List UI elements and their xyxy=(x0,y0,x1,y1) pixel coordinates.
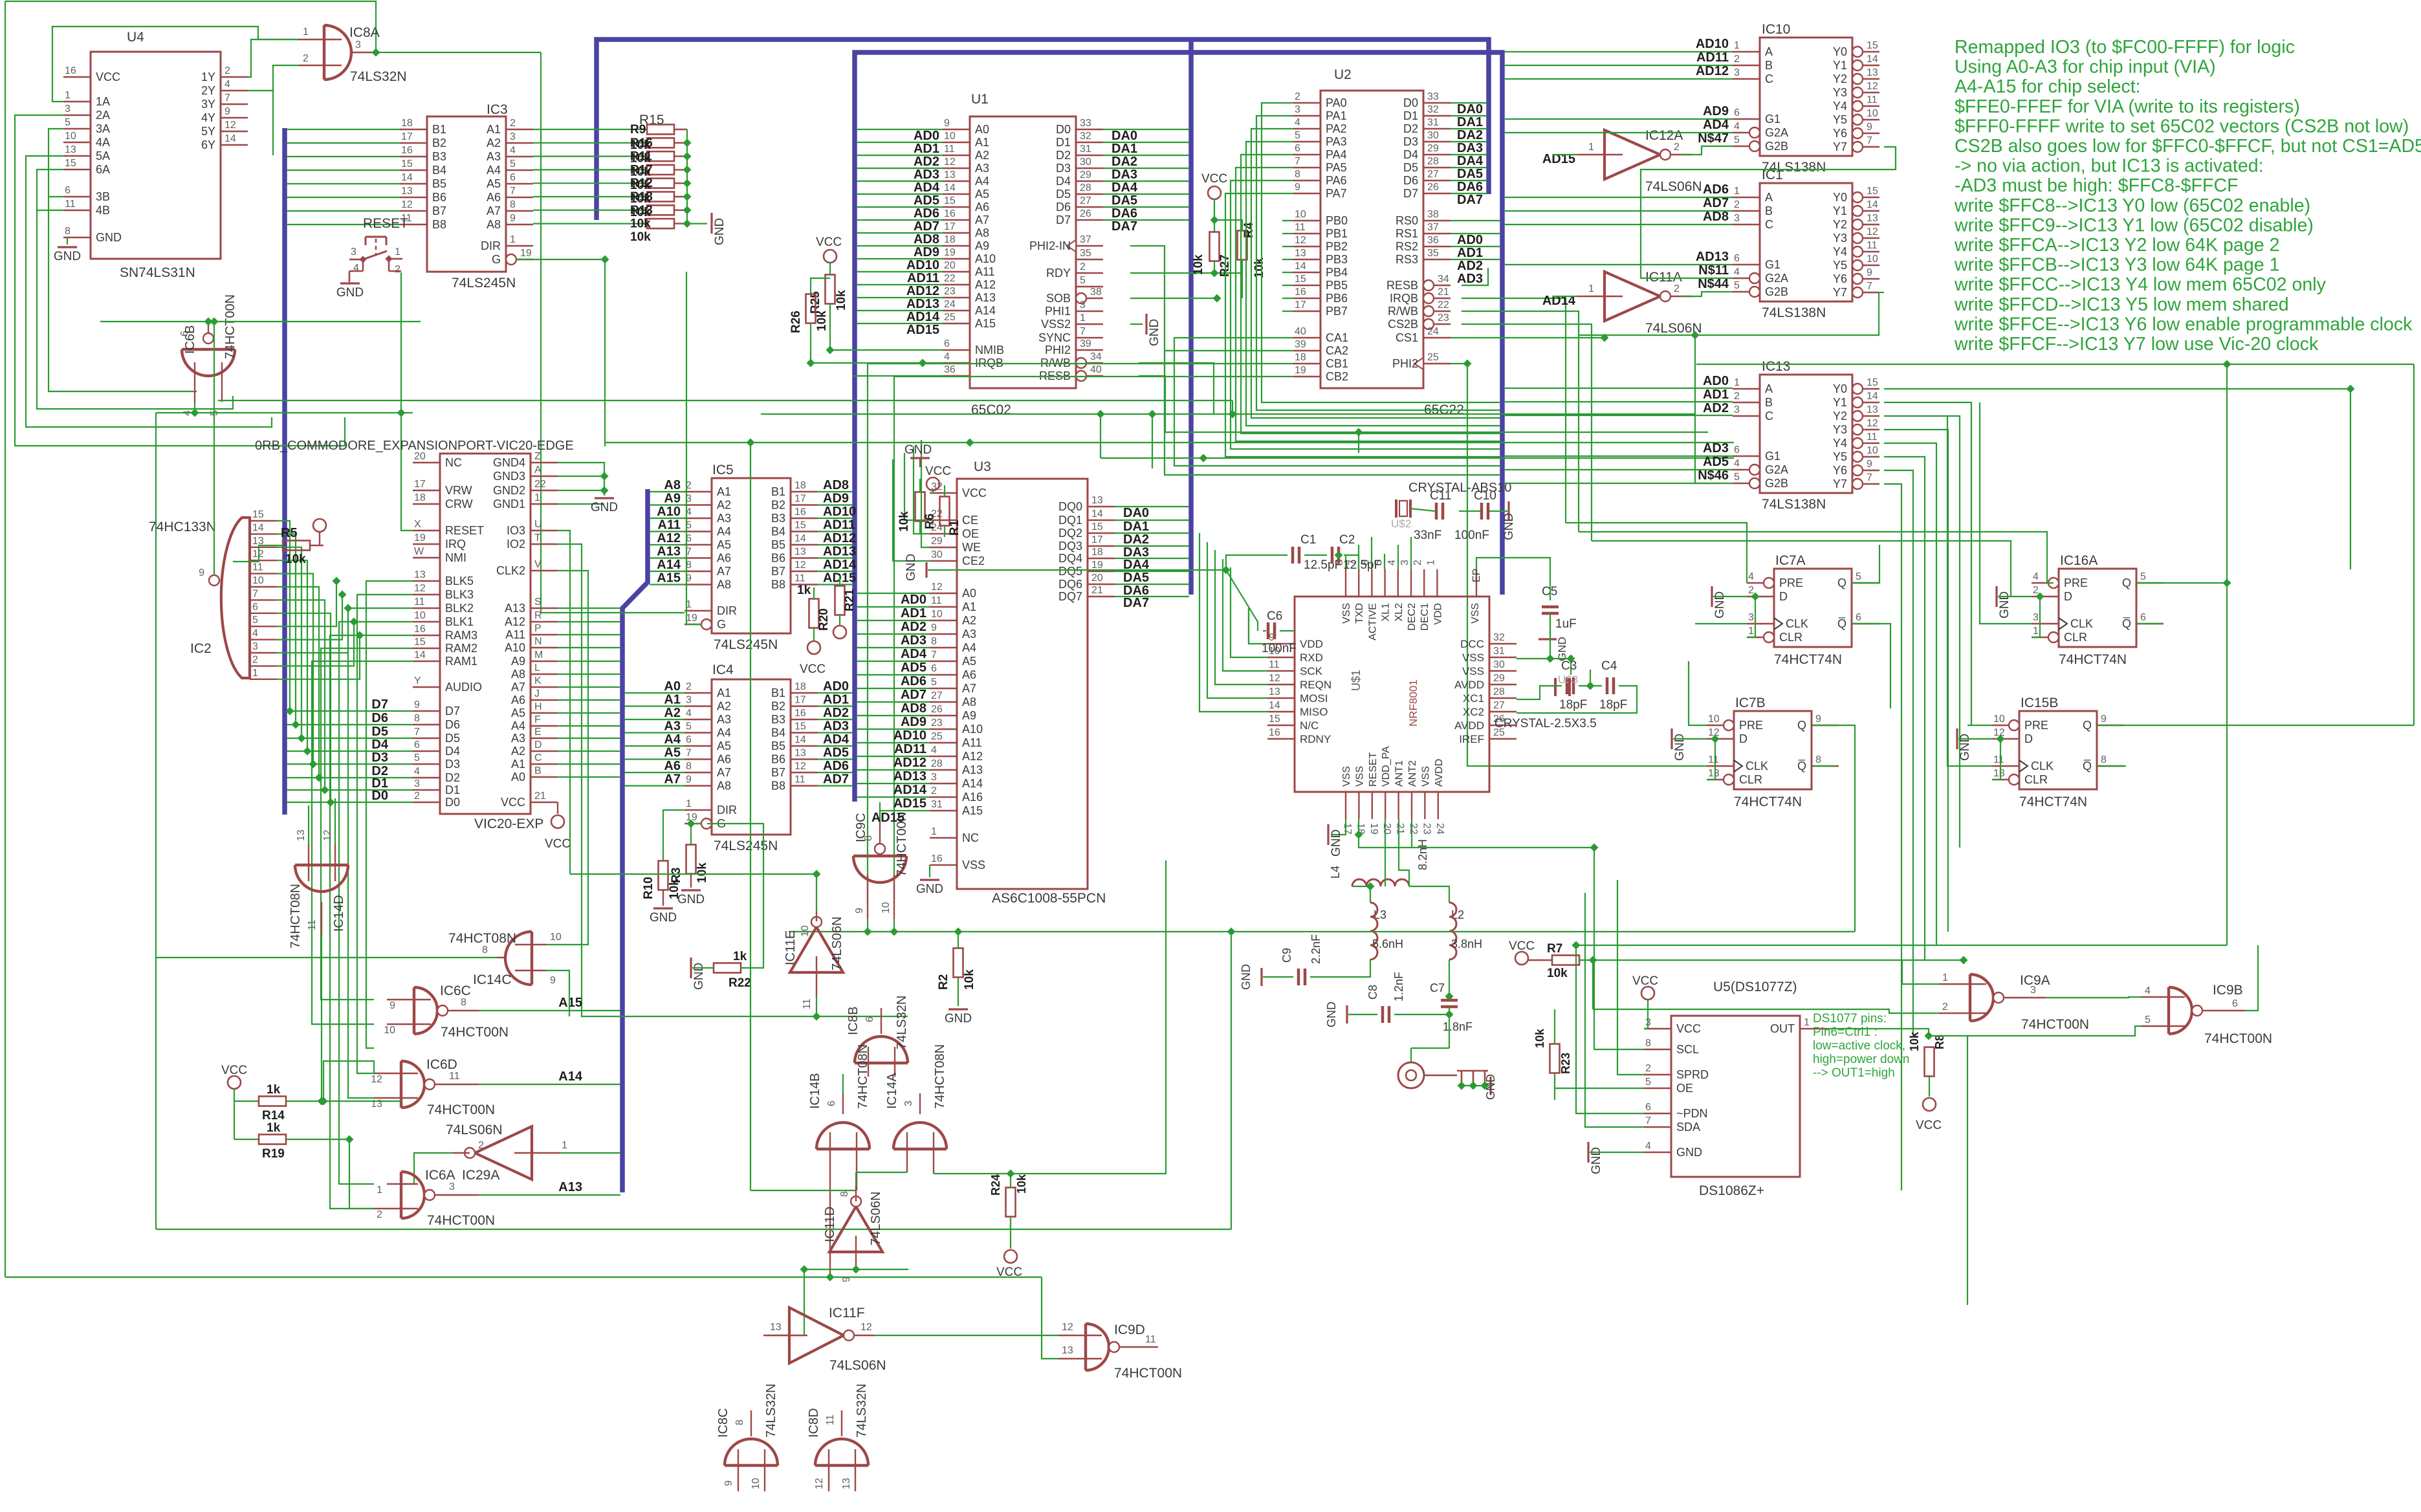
svg-text:A8: A8 xyxy=(717,578,731,591)
svg-text:A: A xyxy=(1765,45,1773,58)
svg-text:B3: B3 xyxy=(432,150,446,163)
svg-text:18: 18 xyxy=(944,234,956,245)
svg-text:-AD3 must be high: $FFC8-$FFCF: -AD3 must be high: $FFC8-$FFCF xyxy=(1955,175,2239,196)
inductor L2 3.8nH xyxy=(1449,903,1482,959)
svg-text:6: 6 xyxy=(1856,612,1861,623)
svg-text:15: 15 xyxy=(1867,186,1878,197)
wire verticals into U3 zone xyxy=(1232,400,1233,414)
svg-text:40: 40 xyxy=(1090,364,1102,375)
svg-text:VCC: VCC xyxy=(1632,974,1658,988)
svg-text:CLR: CLR xyxy=(1739,773,1762,786)
svg-text:AD5: AD5 xyxy=(901,661,926,675)
nand-gate IC9B 74HCT00N xyxy=(2142,983,2272,1046)
svg-text:13: 13 xyxy=(414,569,426,580)
svg-text:11: 11 xyxy=(1295,222,1306,233)
svg-text:VSS: VSS xyxy=(1462,652,1484,664)
svg-text:A2: A2 xyxy=(487,137,501,149)
svg-text:$FFE0-FFEF for VIA (write to i: $FFE0-FFEF for VIA (write to its registe… xyxy=(1955,96,2300,117)
wire IC5 G net xyxy=(686,272,687,624)
svg-text:Y2: Y2 xyxy=(1833,410,1847,422)
svg-text:XC1: XC1 xyxy=(1463,692,1484,705)
svg-text:PHI1: PHI1 xyxy=(1045,305,1071,318)
wire R14 R19 outputs xyxy=(286,1101,401,1102)
svg-text:6: 6 xyxy=(2232,998,2238,1009)
svg-text:A10: A10 xyxy=(975,252,996,265)
wire into IC9A pin1 pin2 xyxy=(1902,960,1939,984)
svg-text:30: 30 xyxy=(1493,659,1505,670)
wire U2 RESB IRQB nets xyxy=(1462,268,1488,285)
svg-text:AD1: AD1 xyxy=(1703,388,1729,402)
svg-text:RAM1: RAM1 xyxy=(445,655,477,668)
svg-text:GND: GND xyxy=(692,963,706,990)
svg-text:D4: D4 xyxy=(371,738,388,752)
svg-text:A0: A0 xyxy=(511,771,525,783)
svg-text:G: G xyxy=(492,253,501,266)
svg-text:GND: GND xyxy=(713,218,727,245)
resistor R14 1k xyxy=(259,1097,286,1106)
svg-text:A2: A2 xyxy=(511,745,525,758)
svg-text:NC: NC xyxy=(962,831,979,844)
svg-text:A14: A14 xyxy=(975,304,996,317)
wire C6 xyxy=(1263,630,1266,631)
svg-text:18: 18 xyxy=(1295,352,1306,363)
svg-text:A3: A3 xyxy=(962,628,976,641)
svg-text:D: D xyxy=(534,740,542,751)
svg-text:B7: B7 xyxy=(432,204,446,217)
svg-text:14: 14 xyxy=(794,533,806,544)
svg-text:74LS245N: 74LS245N xyxy=(714,637,778,652)
wire IC6B output net xyxy=(100,321,421,322)
svg-text:9: 9 xyxy=(414,699,420,710)
svg-text:PA1: PA1 xyxy=(1326,109,1347,122)
wire NRF8001 top pins up xyxy=(1345,555,1346,569)
svg-text:9: 9 xyxy=(686,774,692,785)
svg-text:74HCT08N: 74HCT08N xyxy=(289,884,303,948)
svg-text:11: 11 xyxy=(802,998,813,1009)
svg-text:AD12: AD12 xyxy=(906,284,939,298)
capacitor C8 1.2nF xyxy=(1366,972,1405,1023)
svg-text:R4: R4 xyxy=(1242,222,1256,238)
svg-text:DA5: DA5 xyxy=(1112,193,1137,208)
svg-text:G2B: G2B xyxy=(1765,140,1788,153)
svg-text:12: 12 xyxy=(1295,235,1306,246)
svg-text:9: 9 xyxy=(854,908,865,914)
wire vertical x1160 long xyxy=(750,443,751,1190)
svg-text:GND4: GND4 xyxy=(493,456,525,469)
svg-text:10: 10 xyxy=(750,1478,761,1489)
svg-text:B4: B4 xyxy=(432,164,446,177)
ground GND right of R15 xyxy=(710,213,712,234)
IC IC1 74LS138N xyxy=(1733,168,1879,320)
svg-text:3: 3 xyxy=(1399,560,1410,565)
svg-text:write $FFCD-->IC13 Y5 low mem: write $FFCD-->IC13 Y5 low mem shared xyxy=(1954,294,2289,315)
svg-text:24: 24 xyxy=(1427,326,1439,337)
svg-text:U$3: U$3 xyxy=(1558,674,1578,686)
svg-text:DEC2: DEC2 xyxy=(1407,603,1418,631)
svg-text:G1: G1 xyxy=(1765,258,1780,271)
svg-text:DA7: DA7 xyxy=(1123,596,1149,610)
svg-text:SYNC: SYNC xyxy=(1038,331,1071,344)
svg-text:OUT: OUT xyxy=(1770,1022,1795,1035)
svg-text:AD0: AD0 xyxy=(1457,233,1483,247)
svg-text:N$44: N$44 xyxy=(1698,277,1729,291)
ground GND of U4 xyxy=(67,237,68,245)
svg-text:12: 12 xyxy=(931,582,943,593)
svg-text:AD8: AD8 xyxy=(914,232,939,247)
svg-text:R24: R24 xyxy=(989,1174,1002,1196)
svg-text:CE2: CE2 xyxy=(962,554,985,567)
svg-text:B4: B4 xyxy=(771,525,785,538)
svg-text:Y7: Y7 xyxy=(1833,286,1847,299)
svg-text:4: 4 xyxy=(510,145,516,156)
svg-text:14: 14 xyxy=(401,172,413,183)
svg-text:A15: A15 xyxy=(558,996,582,1010)
svg-text:A1: A1 xyxy=(717,485,731,498)
wire A15 net xyxy=(479,1010,620,1011)
svg-text:28: 28 xyxy=(931,758,943,769)
svg-text:A1: A1 xyxy=(664,693,681,707)
svg-text:A12: A12 xyxy=(505,615,525,628)
svg-text:GND: GND xyxy=(945,1012,972,1025)
svg-text:17: 17 xyxy=(794,695,806,706)
svg-text:B: B xyxy=(1765,59,1773,72)
svg-text:5: 5 xyxy=(65,117,71,128)
svg-text:D7: D7 xyxy=(1056,214,1071,226)
svg-text:3: 3 xyxy=(903,1101,914,1106)
svg-text:12: 12 xyxy=(401,199,413,210)
wire IC8A output xyxy=(374,52,541,53)
svg-text:19: 19 xyxy=(1368,823,1379,835)
svg-text:39: 39 xyxy=(1295,339,1306,350)
svg-text:GND: GND xyxy=(916,882,943,896)
svg-text:10k: 10k xyxy=(1192,254,1205,275)
svg-text:U4: U4 xyxy=(127,30,144,45)
svg-text:29: 29 xyxy=(931,536,943,547)
svg-text:SCK: SCK xyxy=(1300,665,1323,677)
svg-text:BLK1: BLK1 xyxy=(445,615,474,628)
svg-text:AD12: AD12 xyxy=(893,756,926,770)
svg-text:A3: A3 xyxy=(717,512,731,525)
svg-text:AVDD: AVDD xyxy=(1454,719,1484,732)
svg-text:39: 39 xyxy=(1080,338,1091,349)
svg-text:PRE: PRE xyxy=(1739,719,1763,732)
svg-text:2: 2 xyxy=(1645,1063,1651,1074)
svg-text:74LS06N: 74LS06N xyxy=(446,1123,503,1137)
svg-text:7: 7 xyxy=(1867,281,1872,292)
wire GND to C1 C2 xyxy=(928,569,1226,571)
svg-text:A11: A11 xyxy=(657,518,681,532)
svg-text:A6: A6 xyxy=(487,191,501,204)
svg-text:GND: GND xyxy=(1502,513,1516,540)
svg-text:C7: C7 xyxy=(1430,981,1445,994)
svg-text:74HCT74N: 74HCT74N xyxy=(1734,794,1802,809)
svg-text:13: 13 xyxy=(1062,1345,1073,1356)
svg-text:D5: D5 xyxy=(445,732,460,745)
svg-text:AD8: AD8 xyxy=(1703,210,1729,224)
svg-text:A10: A10 xyxy=(657,505,681,519)
svg-text:5: 5 xyxy=(2145,1014,2151,1025)
svg-text:GND: GND xyxy=(1713,591,1727,619)
svg-text:VSS: VSS xyxy=(1420,766,1431,787)
wire bottom horizontal y1900 xyxy=(156,1229,1231,1230)
ground GND below R2 xyxy=(948,1008,968,1010)
bus ADDR busA top xyxy=(597,39,1489,220)
svg-text:DQ3: DQ3 xyxy=(1058,540,1082,553)
svg-text:1: 1 xyxy=(1734,186,1740,197)
svg-text:74LS138N: 74LS138N xyxy=(1762,305,1826,320)
wire IC14D inputs up xyxy=(308,805,309,844)
svg-text:6: 6 xyxy=(1734,107,1740,118)
svg-text:DA1: DA1 xyxy=(1112,142,1137,156)
wire NRF EP to C5 xyxy=(1476,558,1550,600)
svg-text:Y6: Y6 xyxy=(1833,272,1847,285)
svg-text:AD14: AD14 xyxy=(893,783,927,797)
svg-text:BLK2: BLK2 xyxy=(445,602,474,615)
note DS1077 pins annotation xyxy=(1813,1012,1909,1080)
svg-text:A1: A1 xyxy=(511,758,525,771)
ground GND at IC7B D xyxy=(1671,729,1672,749)
svg-text:AD10: AD10 xyxy=(823,505,856,519)
svg-text:2: 2 xyxy=(510,118,516,129)
power VCC above R25 xyxy=(824,250,837,263)
svg-text:A8: A8 xyxy=(975,226,989,239)
svg-text:AD7: AD7 xyxy=(823,772,849,787)
wire U4 1Y to IC8A pin1 xyxy=(246,39,298,77)
ground GND at U1 VSS2 xyxy=(1130,323,1143,325)
wire top-left outer loop xyxy=(5,1,376,52)
svg-text:Y1: Y1 xyxy=(1833,204,1847,217)
svg-text:12: 12 xyxy=(1269,673,1280,684)
svg-text:DIR: DIR xyxy=(481,239,501,252)
inverter IC12A 74LS06N xyxy=(1577,128,1702,194)
svg-text:13: 13 xyxy=(371,1099,382,1110)
svg-text:PHI2: PHI2 xyxy=(1392,357,1418,370)
svg-text:A12: A12 xyxy=(657,531,681,545)
svg-text:8: 8 xyxy=(1295,169,1300,180)
svg-text:Q̅: Q̅ xyxy=(1797,760,1806,772)
svg-text:Y5: Y5 xyxy=(1833,113,1847,126)
svg-text:31: 31 xyxy=(931,799,943,810)
svg-text:R14: R14 xyxy=(262,1109,285,1123)
svg-text:A9: A9 xyxy=(962,709,976,722)
svg-text:RESB: RESB xyxy=(1386,279,1418,292)
wire IC9A out to IC9B xyxy=(2046,997,2142,998)
svg-text:DCC: DCC xyxy=(1460,638,1484,650)
svg-text:GND: GND xyxy=(1484,1074,1497,1100)
svg-text:8: 8 xyxy=(1645,1038,1651,1049)
svg-text:DQ1: DQ1 xyxy=(1058,514,1082,527)
power VCC above R27 R4 xyxy=(1208,186,1221,199)
svg-text:1: 1 xyxy=(534,492,540,503)
svg-text:DA4: DA4 xyxy=(1457,154,1484,168)
svg-text:65C02: 65C02 xyxy=(971,402,1011,417)
svg-text:VCC: VCC xyxy=(816,236,842,249)
svg-text:GND: GND xyxy=(1240,964,1253,990)
note remapped IO3 annotation xyxy=(1954,37,2421,355)
svg-text:Using A0-A3 for chip input (VI: Using A0-A3 for chip input (VIA) xyxy=(1955,57,2216,78)
svg-text:A5: A5 xyxy=(511,707,525,719)
svg-text:Y4: Y4 xyxy=(1833,245,1847,258)
ground GND under R3 xyxy=(690,874,692,888)
svg-text:CLK: CLK xyxy=(1746,760,1768,772)
svg-text:G: G xyxy=(717,618,726,631)
wire VIC20 address letters to busD xyxy=(558,608,620,609)
svg-text:VSS: VSS xyxy=(962,859,985,871)
svg-text:VIC20-EXP: VIC20-EXP xyxy=(474,816,543,831)
svg-text:B1: B1 xyxy=(771,485,785,498)
resistor R4 10k xyxy=(1238,231,1247,260)
svg-text:1: 1 xyxy=(252,668,258,679)
svg-text:20: 20 xyxy=(1091,573,1103,584)
svg-text:A1: A1 xyxy=(717,686,731,699)
svg-text:6: 6 xyxy=(1734,253,1740,264)
svg-text:GND: GND xyxy=(1325,1002,1338,1027)
svg-text:1k: 1k xyxy=(797,584,811,597)
svg-text:74HC133N: 74HC133N xyxy=(149,520,216,534)
svg-text:C: C xyxy=(534,752,542,763)
svg-text:G1: G1 xyxy=(1765,450,1780,463)
svg-text:19: 19 xyxy=(1295,365,1306,376)
svg-text:3: 3 xyxy=(351,247,356,257)
svg-text:DQ0: DQ0 xyxy=(1058,500,1082,513)
svg-text:Y7: Y7 xyxy=(1833,140,1847,153)
or-gate IC8A 74LS32N xyxy=(298,25,407,84)
resistor R24 10k xyxy=(1006,1188,1016,1217)
wire IC13 Y0 long net xyxy=(1884,388,2350,389)
wire NRF bottom pins to filter xyxy=(1385,819,1386,860)
svg-text:L: L xyxy=(534,663,540,674)
svg-text:19: 19 xyxy=(686,613,697,624)
svg-text:AD3: AD3 xyxy=(823,719,849,734)
svg-text:PB4: PB4 xyxy=(1326,266,1348,279)
nand-gate IC2 74HC133N 13-input xyxy=(149,509,277,679)
IC U5(DS1077Z) DS1086Z+ xyxy=(1644,980,1827,1198)
svg-text:D1: D1 xyxy=(1403,109,1418,122)
svg-text:A15: A15 xyxy=(657,571,681,586)
svg-text:13: 13 xyxy=(65,144,76,155)
svg-text:IC6D: IC6D xyxy=(426,1057,457,1072)
svg-text:7: 7 xyxy=(686,748,692,759)
svg-text:13: 13 xyxy=(1993,768,2005,779)
svg-text:12: 12 xyxy=(794,761,806,772)
nand-gate IC6B 74HCT00N xyxy=(179,294,237,416)
svg-text:IC9A: IC9A xyxy=(2020,973,2050,988)
svg-text:2: 2 xyxy=(1412,560,1423,565)
svg-text:10: 10 xyxy=(414,610,426,621)
wire U2 PA nets xyxy=(1262,103,1500,402)
wire left edge vertical xyxy=(5,1,6,1277)
svg-text:5: 5 xyxy=(1734,280,1740,291)
svg-text:13: 13 xyxy=(770,1322,782,1333)
and-gate IC14D 74HCT08N xyxy=(289,829,348,948)
svg-text:PA3: PA3 xyxy=(1326,135,1347,148)
svg-text:21: 21 xyxy=(1438,287,1449,298)
svg-text:AD2: AD2 xyxy=(1457,259,1483,273)
svg-text:A4: A4 xyxy=(487,164,501,177)
svg-text:WE: WE xyxy=(962,541,981,554)
inverter IC11D 74LS06N xyxy=(823,1186,883,1282)
svg-text:REQN: REQN xyxy=(1300,679,1331,691)
svg-text:$FFF0-FFFF write to set 65C02: $FFF0-FFFF write to set 65C02 vectors (C… xyxy=(1955,116,2409,137)
svg-text:IC14B: IC14B xyxy=(808,1073,822,1109)
svg-text:CS2B also goes low for $FFC0-$: CS2B also goes low for $FFC0-$FFCF, but … xyxy=(1955,136,2421,157)
svg-text:AD0: AD0 xyxy=(1703,374,1729,388)
svg-text:D: D xyxy=(1739,732,1747,745)
svg-text:A13: A13 xyxy=(962,763,983,776)
ground GND at IC7A D xyxy=(1711,586,1713,607)
svg-text:3: 3 xyxy=(1748,612,1754,623)
svg-text:AD1: AD1 xyxy=(1457,246,1483,260)
svg-text:AD1: AD1 xyxy=(914,142,939,156)
svg-text:10k: 10k xyxy=(963,969,976,990)
svg-text:VDD: VDD xyxy=(1300,638,1323,650)
svg-text:7: 7 xyxy=(414,727,420,738)
svg-text:AD7: AD7 xyxy=(901,688,926,702)
svg-text:B6: B6 xyxy=(771,552,785,565)
svg-text:AD13: AD13 xyxy=(1696,250,1729,264)
svg-text:Remapped IO3 (to $FC00-FFFF) f: Remapped IO3 (to $FC00-FFFF) for logic xyxy=(1955,37,2295,58)
wire U1 data to busA branch xyxy=(1103,129,1189,130)
svg-text:4Y: 4Y xyxy=(201,111,215,124)
svg-text:74HCT08N: 74HCT08N xyxy=(856,1044,870,1109)
svg-text:11: 11 xyxy=(944,144,955,155)
svg-text:1: 1 xyxy=(1425,560,1436,565)
ground GND left of C1 xyxy=(925,562,927,578)
svg-text:15: 15 xyxy=(1867,40,1878,51)
nand-gate IC9C 74HCT00N xyxy=(853,812,909,919)
resistor R6 10k xyxy=(915,492,925,521)
nand-gate IC6D 74HCT00N xyxy=(371,1057,495,1117)
svg-text:D4: D4 xyxy=(1403,148,1418,161)
svg-text:17: 17 xyxy=(794,494,806,505)
wire x1903 vertical xyxy=(1231,932,1232,1229)
svg-text:5: 5 xyxy=(414,752,420,763)
svg-text:R: R xyxy=(534,610,542,621)
svg-text:10k: 10k xyxy=(285,553,306,566)
svg-text:A2: A2 xyxy=(717,499,731,512)
svg-text:33: 33 xyxy=(1080,118,1091,129)
svg-text:R10: R10 xyxy=(642,877,655,899)
svg-text:VCC: VCC xyxy=(96,71,120,83)
svg-text:AVDD: AVDD xyxy=(1454,679,1484,691)
svg-text:PHI2: PHI2 xyxy=(1045,344,1071,356)
wire IC8A out to IC5 DIR xyxy=(541,52,685,613)
svg-text:4: 4 xyxy=(1748,571,1754,582)
svg-text:74HCT00N: 74HCT00N xyxy=(1114,1366,1182,1381)
svg-text:5: 5 xyxy=(1645,1077,1651,1088)
svg-text:25: 25 xyxy=(1427,352,1439,363)
svg-text:A10: A10 xyxy=(962,723,983,736)
svg-text:AD11: AD11 xyxy=(1696,50,1729,65)
svg-text:AD12: AD12 xyxy=(823,531,856,545)
svg-text:10k: 10k xyxy=(1908,1031,1921,1051)
svg-text:A5: A5 xyxy=(717,740,731,752)
svg-text:AD4: AD4 xyxy=(823,732,849,747)
bus busC VIC20 data xyxy=(282,128,287,815)
wire R25 R26 to U1 xyxy=(829,304,831,350)
svg-text:D: D xyxy=(2064,590,2072,603)
svg-text:VCC: VCC xyxy=(996,1265,1022,1279)
svg-text:VCC: VCC xyxy=(221,1064,247,1077)
svg-text:PA6: PA6 xyxy=(1326,174,1347,187)
wire IC16A Q outputs xyxy=(2136,582,2227,584)
inverter IC11A 74LS06N xyxy=(1577,270,1702,336)
resistor R7 10k xyxy=(1515,952,1528,965)
svg-text:28: 28 xyxy=(1080,182,1091,193)
svg-text:Y2: Y2 xyxy=(1833,72,1847,85)
svg-text:13: 13 xyxy=(401,186,413,197)
svg-text:2: 2 xyxy=(1734,199,1740,210)
